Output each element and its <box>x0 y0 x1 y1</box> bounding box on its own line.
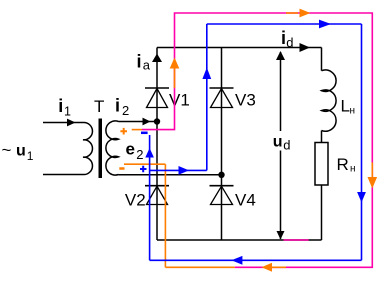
svg-text:1: 1 <box>64 105 71 119</box>
inductor L_n <box>322 70 337 131</box>
arrow orange left on bottom <box>262 263 287 272</box>
wire orange start segment <box>132 129 142 131</box>
svg-text:d: d <box>283 138 290 153</box>
wire orange left vertical <box>164 164 166 267</box>
orange plus sign <box>120 128 127 135</box>
label V2 <box>125 191 146 210</box>
transformer T primary winding <box>83 122 92 174</box>
svg-text:i: i <box>58 96 63 116</box>
svg-text:T: T <box>94 97 104 116</box>
wire orange to minus terminal <box>124 163 165 165</box>
svg-text:i: i <box>281 28 286 48</box>
label V1 <box>169 91 190 110</box>
arrow blue up on mid <box>202 68 211 80</box>
wire blue top segment <box>207 23 362 25</box>
wire blue right vertical <box>361 24 363 260</box>
orange minus sign <box>119 167 124 170</box>
node top terminal junction <box>154 118 160 124</box>
wire secondary top terminal <box>119 121 158 123</box>
arrow i_a <box>152 54 162 63</box>
wire primary bottom stub <box>43 174 83 176</box>
arrow orange right on top <box>286 9 311 18</box>
svg-text:1: 1 <box>27 149 34 163</box>
label T <box>94 97 104 116</box>
arrow blue down on right <box>357 192 366 203</box>
arrow blue right on mid <box>179 166 190 175</box>
label V3 <box>235 91 256 110</box>
wire load branch bottom <box>321 185 323 240</box>
label L_n <box>341 97 356 117</box>
wire blue mid vertical <box>206 24 208 170</box>
label R_n <box>337 155 356 175</box>
wire load branch mid <box>321 131 323 143</box>
wire load branch top <box>321 48 323 71</box>
label e2 <box>126 140 144 163</box>
svg-text:V3: V3 <box>235 91 256 110</box>
label i_d <box>281 28 294 50</box>
resistor R_n <box>315 143 328 186</box>
label V4 <box>235 191 256 210</box>
diode V1 <box>145 88 169 108</box>
diode V2 <box>145 186 169 205</box>
arrow blue left on bottom <box>231 256 242 265</box>
svg-text:a: a <box>143 58 151 73</box>
label i2 <box>115 96 129 119</box>
svg-text:V4: V4 <box>235 191 256 210</box>
label ~u1 source <box>2 141 34 164</box>
svg-text:V1: V1 <box>169 91 190 110</box>
wire magenta current loop <box>142 13 372 267</box>
wire blue bottom segment <box>150 259 362 261</box>
svg-text:i: i <box>115 96 120 116</box>
wire right bridge leg <box>221 48 223 241</box>
svg-text:R: R <box>337 155 349 174</box>
svg-text:н: н <box>350 106 356 117</box>
arrow blue e2 up <box>145 148 154 158</box>
svg-text:u: u <box>16 143 26 160</box>
arrow i1 <box>67 119 76 127</box>
arrow i2 <box>143 118 151 126</box>
diode V3 <box>210 88 234 108</box>
label i1 <box>58 96 71 119</box>
blue plus sign <box>140 166 147 173</box>
wire magenta overlap on bottom bus <box>284 239 309 241</box>
arrow u_d voltage <box>276 51 285 240</box>
svg-text:н: н <box>350 164 356 175</box>
blue minus sign <box>141 132 148 135</box>
arrow i_d <box>300 43 311 52</box>
wire blue mid horizontal <box>150 169 207 171</box>
svg-text:d: d <box>286 35 293 50</box>
wire secondary bottom terminal <box>119 174 222 176</box>
label u_d <box>271 131 293 153</box>
wire top bus <box>157 47 322 49</box>
transformer T core <box>99 119 103 179</box>
svg-text:V2: V2 <box>125 191 146 210</box>
svg-text:2: 2 <box>136 147 143 162</box>
wire blue left vertical <box>149 135 151 260</box>
svg-text:2: 2 <box>122 103 129 118</box>
arrow blue right on top <box>319 20 331 29</box>
svg-text:u: u <box>273 134 283 151</box>
transformer T secondary winding <box>106 121 119 175</box>
svg-text:i: i <box>137 52 142 72</box>
wire left bridge leg <box>156 48 158 241</box>
label i_a <box>137 52 151 73</box>
arrow orange up on left <box>170 58 180 89</box>
svg-text:e: e <box>126 140 135 159</box>
diode V4 <box>210 186 234 205</box>
arrow orange down on right <box>368 162 378 188</box>
svg-text:~: ~ <box>2 141 12 160</box>
wire primary top stub <box>43 122 83 124</box>
node bottom terminal junction <box>218 172 224 178</box>
wire bottom bus <box>157 239 322 241</box>
wire orange bottom segment <box>165 266 234 268</box>
